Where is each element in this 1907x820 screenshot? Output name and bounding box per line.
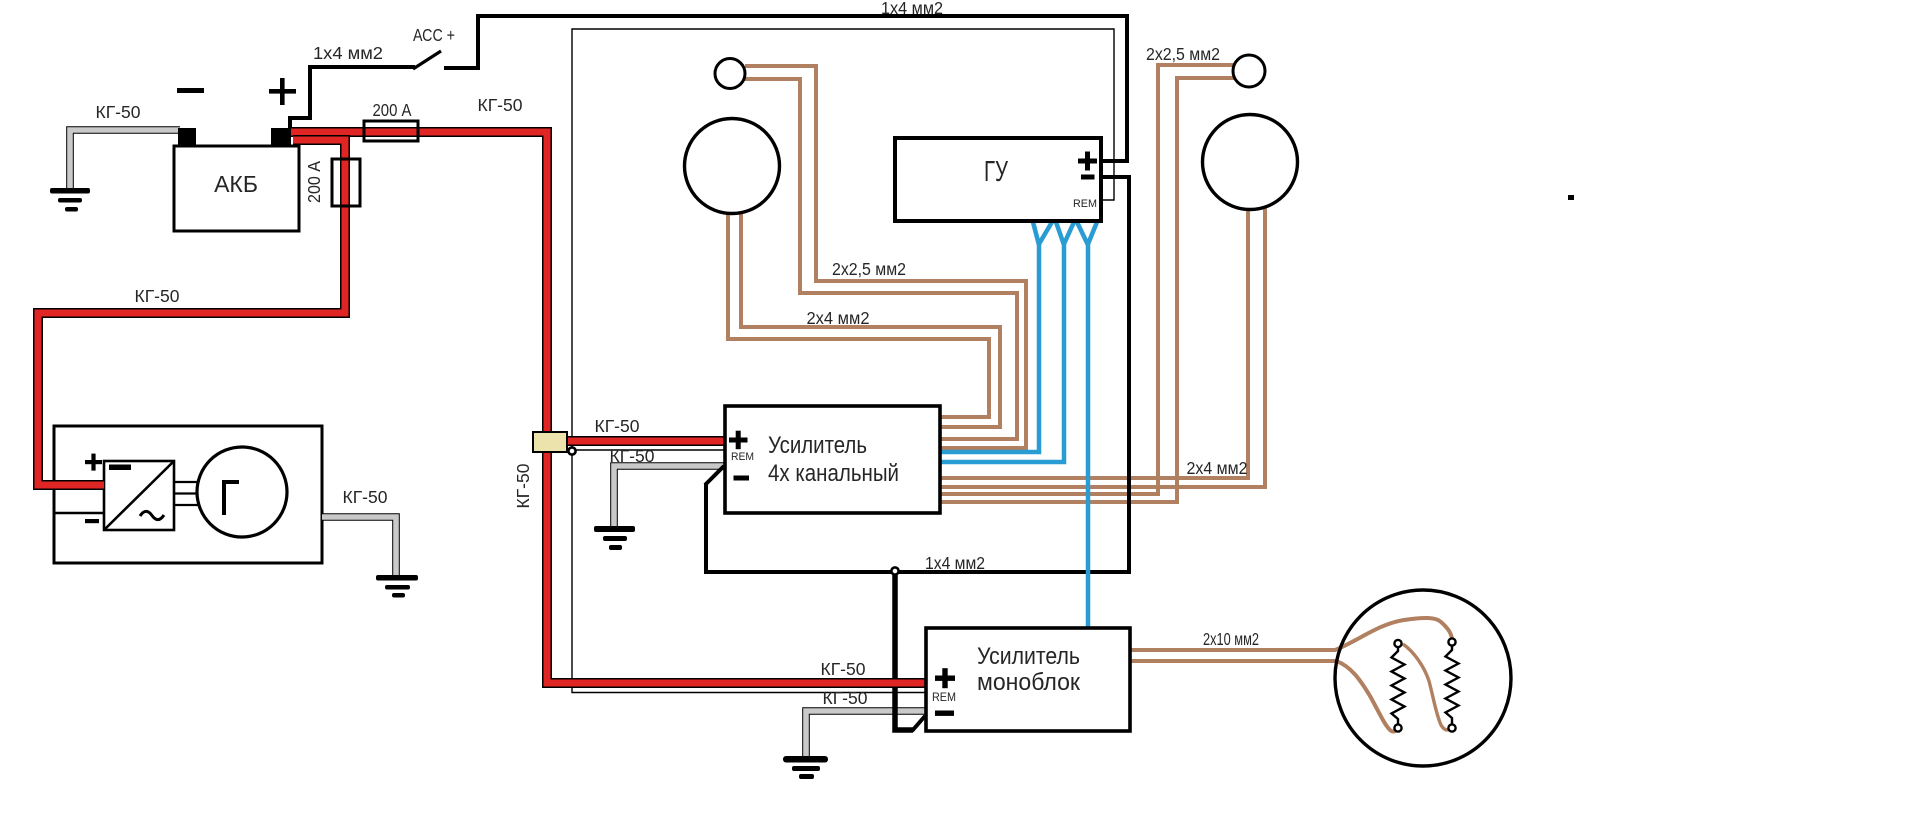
svg-text:200 А: 200 А (373, 100, 412, 120)
svg-text:REM: REM (932, 692, 956, 704)
rectifier box (104, 461, 174, 530)
svg-text:Усилитель: Усилитель (977, 643, 1080, 670)
wire KG-50 battery plus to monoblock (red) (288, 132, 926, 683)
wire subwoofer 2x10mm2 lower (1130, 661, 1396, 732)
switch ACC+ blade (413, 51, 441, 69)
generator plus sign (85, 454, 102, 471)
wire right speaker 2x4mm2 lower (941, 208, 1265, 487)
svg-text:КГ-50: КГ-50 (96, 102, 141, 122)
svg-text:КГ-50: КГ-50 (610, 446, 655, 466)
svg-text:моноблок: моноблок (977, 669, 1080, 696)
wire KG-50 battery minus to ground (outline) (70, 130, 180, 190)
svg-text:КГ-50: КГ-50 (823, 688, 868, 708)
head unit GU box (895, 138, 1101, 221)
wire RCA pair 2 to 4ch amp (941, 222, 1074, 462)
generator circle G (197, 447, 287, 537)
svg-text:REM: REM (731, 451, 754, 463)
wire KG-50 battery to generator (red) (38, 140, 345, 485)
amplifier 4ch plus sign (729, 431, 748, 450)
rectifier diagonal (104, 461, 174, 530)
wire KG-50 distributor to 4ch amp (red) (560, 438, 725, 445)
distributor block (beige) (533, 432, 567, 452)
subwoofer circle (1335, 590, 1511, 766)
wire KG-50 4ch amp minus to ground (gray) (614, 466, 725, 528)
ground monoblock (783, 756, 828, 779)
amplifier monoblock plus sign (935, 668, 955, 688)
wire RCA pair 1 to 4ch amp (941, 222, 1052, 452)
wire KG-50 monoblock minus to ground (gray) (806, 711, 926, 757)
SECTION: gray ground wires (50, 130, 926, 779)
svg-text:КГ-50: КГ-50 (478, 95, 523, 115)
wire diagonal stub into 4ch amp (705, 466, 724, 485)
amplifier monoblock box (926, 628, 1130, 731)
generator letter G (224, 482, 239, 515)
rectifier minus bar inside (109, 465, 131, 471)
amplifier monoblock minus sign (935, 711, 954, 716)
SECTION: labels (96, 0, 1259, 708)
SECTION: boxes (174, 55, 1574, 766)
fuse 200A horizontal (364, 121, 418, 141)
node junction on REM run (891, 567, 898, 574)
wire right speaker 2x4mm2 upper (941, 208, 1248, 478)
svg-text:2х2,5 мм2: 2х2,5 мм2 (832, 259, 906, 279)
wire KG-50 generator to ground (outline) (322, 517, 396, 578)
svg-text:ГУ: ГУ (984, 156, 1008, 188)
wire KG-50 battery plus to monoblock (outline) (289, 132, 926, 683)
svg-text:1х4 мм2: 1х4 мм2 (925, 553, 985, 573)
svg-text:КГ-50: КГ-50 (821, 659, 866, 679)
battery terminal minus (178, 128, 196, 147)
svg-text:2х4 мм2: 2х4 мм2 (807, 308, 870, 328)
svg-text:АКБ: АКБ (214, 171, 258, 197)
wire left speaker 2x4mm2 outer (728, 212, 989, 417)
left speaker (685, 119, 780, 214)
wire right tweeter 2x2.5mm2 lower (941, 78, 1234, 502)
svg-text:КГ-50: КГ-50 (343, 487, 388, 507)
wire RCA pair 3 to monoblock (1077, 222, 1097, 627)
SECTION: thick black ACC runs (over brown) (444, 16, 1129, 572)
wire KG-50 monoblock minus to ground (outline) (806, 711, 926, 757)
wire KG-50 4ch amp minus to ground (outline) (614, 466, 725, 528)
svg-text:200 А: 200 А (304, 161, 324, 203)
wire rectifier to generator 3-phase (174, 482, 198, 505)
wire KG-50 generator to ground (gray) (322, 517, 396, 578)
head unit minus sign (1081, 175, 1095, 180)
svg-text:REM: REM (1073, 198, 1097, 210)
svg-text:4х канальный: 4х канальный (768, 460, 899, 487)
svg-text:2х10 мм2: 2х10 мм2 (1203, 629, 1259, 649)
svg-text:1х4 мм2: 1х4 мм2 (313, 43, 383, 63)
wire subwoofer coil series link (1403, 644, 1450, 730)
svg-text:КГ-50: КГ-50 (595, 416, 640, 436)
svg-text:АСС +: АСС + (413, 25, 455, 45)
svg-text:2х4 мм2: 2х4 мм2 (1187, 458, 1248, 478)
fuse 200A vertical (332, 159, 360, 206)
amplifier 4ch minus sign (734, 476, 750, 481)
wire head unit minus to amplifiers REM run 1x4mm2 (706, 177, 1129, 572)
battery AKB box (174, 146, 299, 231)
battery plus sign (269, 78, 296, 105)
wire branch down to monoblock REM area (895, 571, 913, 730)
wire diagonal stub into monoblock (912, 716, 925, 731)
wire left tweeter 2x2.5mm2 lower (744, 79, 1017, 439)
wire KG-50 battery minus to ground (gray) (70, 130, 180, 190)
wire REM thin loop (head unit REM to cabin run) (572, 29, 1114, 693)
SECTION: black wire stubs (under red, over gray) (290, 51, 925, 731)
ground generator (376, 575, 418, 598)
subwoofer left voice coil (1392, 640, 1405, 732)
wire left tweeter 2x2.5mm2 upper (745, 66, 1026, 448)
wire battery plus to ACC switch 1x4mm2 (290, 67, 415, 130)
SECTION: generator (drawn under wires) (54, 426, 322, 563)
generator outer box (54, 426, 322, 563)
ground battery (50, 188, 90, 212)
SECTION: brown speaker wires (728, 65, 1452, 732)
wire KG-50 battery to generator (outline) (38, 140, 345, 485)
wire rectifier minus to frame (54, 512, 104, 514)
wire right tweeter 2x2.5mm2 upper (941, 65, 1234, 494)
SECTION: blue RCA wires (941, 222, 1097, 627)
svg-text:1х4 мм2: 1х4 мм2 (881, 0, 943, 18)
battery minus sign (177, 88, 204, 93)
left tweeter (715, 59, 745, 89)
wire subwoofer 2x10mm2 upper (1130, 618, 1452, 650)
wire left speaker 2x4mm2 inner (741, 212, 1000, 427)
wire KG-50 distributor to 4ch amp (outline) (560, 436, 725, 446)
ground 4ch amp (594, 526, 635, 550)
wire REM branch to 4ch amp (572, 449, 725, 451)
svg-text:2х2,5 мм2: 2х2,5 мм2 (1146, 44, 1220, 64)
generator minus sign outside (85, 519, 99, 523)
subwoofer right voice coil (1446, 638, 1459, 731)
artifact dot (1568, 195, 1574, 200)
rectifier sine symbol (140, 511, 164, 519)
wire switch to head unit plus 1x4mm2 (444, 16, 1127, 161)
node junction at distributor (568, 447, 575, 454)
right tweeter (1233, 55, 1265, 87)
svg-text:Усилитель: Усилитель (768, 432, 867, 459)
amplifier 4ch box (725, 406, 940, 513)
SECTION: thin remote-wire loop (572, 29, 1114, 693)
svg-text:КГ-50: КГ-50 (135, 286, 180, 306)
battery terminal plus (271, 128, 291, 147)
svg-text:КГ-50: КГ-50 (513, 463, 533, 508)
right speaker (1203, 115, 1298, 210)
SECTION: red power wires (38, 132, 926, 683)
head unit plus sign (1078, 152, 1097, 171)
